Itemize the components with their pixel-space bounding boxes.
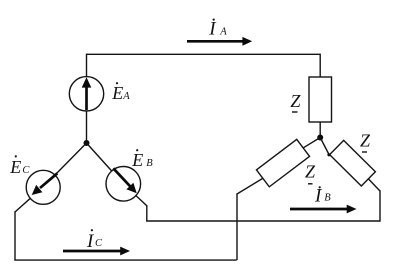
svg-text:Z: Z xyxy=(305,162,316,182)
wire B rail horizontal (I_B) xyxy=(146,220,380,222)
wire right node to impedance Z phase C xyxy=(303,138,320,148)
impedance Z phase C (left diagonal rectangle) xyxy=(256,139,309,186)
label Z phase B xyxy=(360,131,371,153)
wire impedance Z phase C to corner xyxy=(237,178,263,194)
wire right vertical to B rail xyxy=(379,190,381,221)
wire left vertical from top to source E_A xyxy=(86,54,88,77)
wire from source E_C to bottom-left corner xyxy=(15,198,30,212)
wire right vertical from top rail to impedance Z phase A xyxy=(319,54,321,77)
label Z phase C xyxy=(305,162,316,184)
svg-text:E: E xyxy=(9,157,21,177)
current arrow I_A xyxy=(187,37,252,46)
svg-text:C: C xyxy=(22,165,30,176)
node: star point of sources xyxy=(84,140,90,146)
wire from source E_A down to star node xyxy=(86,111,88,143)
arrow of source E_C xyxy=(32,173,58,195)
svg-text:E: E xyxy=(111,83,123,103)
arrow of source E_A xyxy=(82,77,92,110)
node: right junction xyxy=(317,135,323,141)
label E_C xyxy=(9,155,30,177)
wire bottom rail (I_C) xyxy=(14,259,236,261)
label I_B xyxy=(314,186,331,207)
wire vertical down to bottom rail xyxy=(236,193,238,260)
svg-text:A: A xyxy=(122,91,130,102)
source E_C xyxy=(26,170,60,204)
svg-text:Z: Z xyxy=(290,91,301,111)
svg-text:B: B xyxy=(324,193,331,204)
svg-text:E: E xyxy=(131,150,143,170)
label Z phase A xyxy=(290,91,301,112)
svg-text:Z: Z xyxy=(360,131,371,151)
label I_A xyxy=(208,19,227,40)
label I_C xyxy=(86,229,103,252)
wire star node to source E_B xyxy=(87,143,112,171)
wire impedance Z phase B down to corner xyxy=(368,179,380,191)
wire right node to impedance Z phase B xyxy=(320,138,329,155)
source E_A xyxy=(69,77,103,111)
wire star node to source E_C xyxy=(55,143,87,175)
arrow of source E_B xyxy=(113,168,136,193)
svg-text:C: C xyxy=(95,238,103,249)
impedance Z phase B (right diagonal rectangle) xyxy=(330,140,376,186)
current arrow I_C xyxy=(63,247,130,256)
wire left vertical down to bottom rail xyxy=(14,211,16,260)
svg-text:B: B xyxy=(146,158,153,169)
node: small junction dot xyxy=(327,153,330,156)
wire from source E_B to corner xyxy=(136,196,147,206)
svg-text:A: A xyxy=(219,27,227,38)
label E_B xyxy=(131,149,153,170)
label E_A xyxy=(111,82,130,103)
wire top horizontal (node A feed) xyxy=(87,53,321,55)
wire impedance Z phase A to right node xyxy=(319,122,321,138)
impedance Z phase A (vertical rectangle) xyxy=(309,77,332,122)
current arrow I_B xyxy=(290,205,357,214)
wire short vertical to B rail xyxy=(146,205,148,221)
source E_B xyxy=(106,167,141,202)
